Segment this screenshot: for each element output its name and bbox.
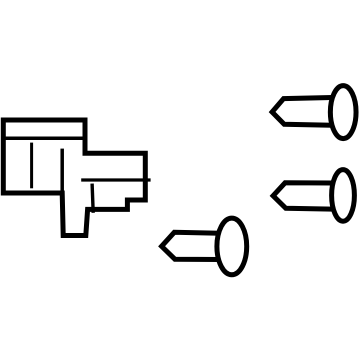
screw 3 shaft and tip: [162, 232, 220, 259]
screw 1 head: [330, 86, 356, 139]
screw 3 head: [217, 218, 247, 275]
interior vertical line V1: [30, 143, 33, 189]
screw 1 shaft and tip: [272, 98, 332, 126]
interior vertical line V2: [60, 149, 64, 193]
interior vertical line V3: [92, 184, 93, 213]
screw 2 head: [332, 170, 355, 222]
interior horizontal line H1: [2, 136, 86, 140]
screw 2 shaft and tip: [273, 183, 332, 209]
interior horizontal line H2: [81, 178, 150, 181]
sensor body outline: [3, 120, 145, 236]
